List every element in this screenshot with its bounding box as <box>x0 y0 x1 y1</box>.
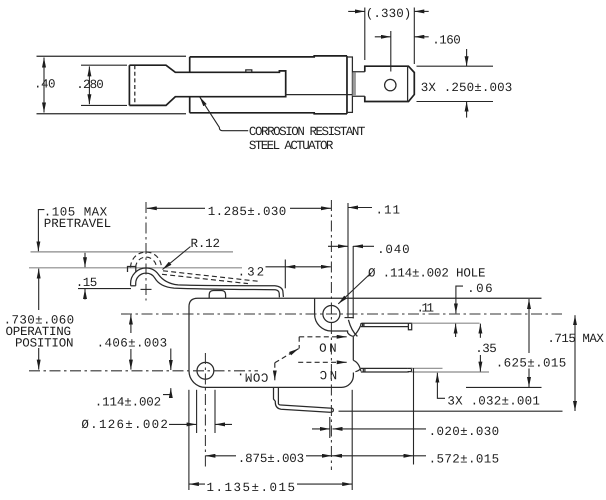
extension line (.330) left <box>364 8 366 61</box>
free-position curl tail box <box>128 267 136 273</box>
svg-text:3X .032±.001: 3X .032±.001 <box>447 394 539 408</box>
svg-text:.11: .11 <box>376 204 400 218</box>
mounting hole centerline vertical <box>204 353 206 468</box>
lower terminal bend ticks <box>363 368 365 372</box>
dimension .020 arrows <box>312 428 330 430</box>
dashed free-position lever top <box>163 271 258 281</box>
extension line .160 at hole center <box>390 31 392 72</box>
svg-text:POSITION: POSITION <box>15 336 73 350</box>
body bottom extension line <box>466 386 542 388</box>
body bottom right corner <box>342 373 354 388</box>
dimension .280 arrows <box>88 66 90 104</box>
switch body outline <box>189 298 542 387</box>
lower terminal extension lines <box>412 367 443 369</box>
body end cap <box>347 57 353 112</box>
extension lines 3X .250 <box>417 65 494 67</box>
lever strip top edge with taper <box>129 65 285 94</box>
upper terminal end tab <box>408 323 411 330</box>
lower terminal strip <box>361 368 408 372</box>
svg-text:.040: .040 <box>377 243 409 257</box>
dimension .625 arrows <box>528 299 530 353</box>
svg-text:.406±.003: .406±.003 <box>97 337 167 351</box>
dimension 1.285 arrows <box>147 207 205 209</box>
svg-text:NC: NC <box>320 367 337 381</box>
operating position centerline <box>121 313 562 315</box>
dashed circuit corner <box>298 337 300 349</box>
leader R.12 <box>163 247 191 270</box>
svg-text:PRETRAVEL: PRETRAVEL <box>44 217 111 231</box>
mounting hole .126 <box>197 362 214 379</box>
switch body right edge <box>346 56 348 114</box>
dashed free-position lever bottom <box>162 274 248 283</box>
body right edge between terminals <box>352 336 354 360</box>
svg-text:NO: NO <box>320 339 337 353</box>
extension line body right lower <box>351 390 353 490</box>
curl centerline vertical <box>145 202 147 301</box>
svg-text:R.12: R.12 <box>191 237 220 251</box>
svg-text:(.330): (.330) <box>366 7 411 21</box>
extension line .32 <box>284 260 286 289</box>
extension line x348 <box>347 203 349 318</box>
svg-text:.625±.015: .625±.015 <box>496 357 566 371</box>
lower terminal bend outer <box>353 360 361 371</box>
dimension 3X .032 bracket arrow <box>437 373 445 399</box>
svg-text:.15: .15 <box>76 276 97 290</box>
lower terminal bend inner <box>355 369 361 372</box>
switch body bottom edge (top view) <box>190 113 347 114</box>
dimension .406 arrows <box>130 315 132 333</box>
common terminal pin inner <box>278 388 330 408</box>
dashed free-position curl outer arc <box>131 252 162 267</box>
svg-text:STEEL ACTUATOR: STEEL ACTUATOR <box>249 139 334 153</box>
svg-text:.06: .06 <box>467 282 492 296</box>
dimension .730 operating position arrows <box>38 269 40 310</box>
dimension (.330) arrows <box>348 10 365 12</box>
svg-text:.572±.015: .572±.015 <box>429 452 499 466</box>
svg-text:.715 MAX: .715 MAX <box>547 332 604 346</box>
dashed circuit NC arrow <box>298 361 342 363</box>
dimension .715 arrows <box>574 315 576 411</box>
extension line from pin tip <box>339 410 563 412</box>
switch body left edge lower segment <box>189 97 191 113</box>
dashed circuit COM arrow <box>274 363 276 375</box>
svg-text:1.135±.015: 1.135±.015 <box>207 481 295 495</box>
lever curl tail cap <box>131 285 136 287</box>
dimension .35 arrows <box>479 324 481 338</box>
terminal tab hole <box>385 79 396 90</box>
dimension .15 top arrow <box>84 253 86 267</box>
dimension .114 upper arrow <box>170 349 172 371</box>
short line .020 <box>329 417 331 438</box>
dimension .572 arrows <box>332 455 414 457</box>
pivot ear <box>315 298 353 336</box>
upper terminal bend outer <box>348 320 357 337</box>
svg-text:Ø.126±.002: Ø.126±.002 <box>81 418 167 432</box>
dimension .06 bracket arrow <box>456 286 463 313</box>
svg-text:1.285±.030: 1.285±.030 <box>208 205 286 219</box>
upper terminal strip <box>361 323 409 326</box>
extension line (.330)/.160 right <box>413 8 415 65</box>
lever strip bottom edge with taper <box>129 95 285 106</box>
switch body left edge upper segment <box>189 57 191 72</box>
svg-text:.40: .40 <box>34 78 55 92</box>
pivot hole .114 <box>323 306 340 323</box>
terminal tab bend line <box>407 66 409 101</box>
dashed circuit diagonal <box>275 351 294 363</box>
upper terminal bend ticks <box>363 323 364 326</box>
extension line body left lower <box>188 390 190 490</box>
dashed free-position curl inner arc <box>136 257 157 267</box>
tick at ear top right <box>345 317 354 319</box>
switch body top edge (top view) <box>190 56 347 57</box>
dimension .32 arrows <box>266 266 286 268</box>
dimension .15 extension line <box>78 288 131 290</box>
mounting hole centerline horizontal <box>29 370 258 372</box>
extension line terminal ends <box>413 368 415 465</box>
extension line x353 <box>352 246 354 319</box>
actuator outer envelope bottom line <box>37 113 187 115</box>
extension lines hole .126 <box>196 390 198 433</box>
operating travel line <box>29 267 242 269</box>
dimension 1.135 arrows <box>189 483 205 485</box>
actuator outer envelope top line <box>37 55 187 57</box>
dimension .126 arrows <box>169 423 197 425</box>
lower terminal end tab <box>407 368 411 372</box>
spring line to terminal base <box>286 94 353 96</box>
curl center cross tick <box>141 288 152 290</box>
svg-text:.160: .160 <box>432 34 460 48</box>
upper terminal extension line <box>412 322 480 324</box>
dimension .875 arrows <box>205 455 236 457</box>
dimension .15 bottom arrow <box>84 289 86 300</box>
svg-text:.11: .11 <box>417 302 434 316</box>
free position line <box>31 251 234 253</box>
dimension .040 arrows <box>328 245 348 247</box>
leader corrosion resistant steel actuator <box>200 97 249 131</box>
common terminal pin outer <box>274 388 334 412</box>
terminal base outline <box>352 72 364 97</box>
lever bend line (dashed) <box>134 65 136 105</box>
hole centerline vertical <box>330 200 332 470</box>
svg-text:3X .250±.003: 3X .250±.003 <box>421 81 512 95</box>
svg-text:.114±.002: .114±.002 <box>95 395 161 409</box>
svg-text:.35: .35 <box>475 342 496 356</box>
svg-text:.020±.030: .020±.030 <box>429 425 499 439</box>
lever curl outer arc and top surface <box>131 268 284 297</box>
svg-text:CORROSION RESISTANT: CORROSION RESISTANT <box>249 125 366 139</box>
leader hole .114 <box>338 273 371 304</box>
dimension .114 lower arrow with bracket <box>163 388 171 395</box>
dashed circuit NO arrow <box>299 336 342 338</box>
svg-text:.32: .32 <box>238 265 264 279</box>
dimension 3X .250 arrows <box>466 49 468 66</box>
svg-text:COM.: COM. <box>237 369 268 383</box>
dimension .11 upper arrow <box>348 207 372 209</box>
dimension .40 arrows <box>43 58 45 113</box>
upper terminal bend inner <box>353 325 361 336</box>
svg-text:Ø .114±.002 HOLE: Ø .114±.002 HOLE <box>368 267 485 281</box>
plunger dome <box>209 291 225 299</box>
terminal base gray band <box>353 72 356 96</box>
dimension .160 arrows <box>375 36 391 38</box>
extension lines .280 <box>81 64 127 66</box>
dimension .06 lower arrow <box>455 324 457 337</box>
svg-text:.875±.003: .875±.003 <box>238 452 304 466</box>
lever top notch <box>246 70 252 72</box>
dimension .105 MAX bracket and arrow <box>38 210 44 252</box>
lever strip left end <box>128 65 130 105</box>
terminal tab outline <box>365 66 415 101</box>
lever curl inner arc and bottom surface <box>136 273 280 297</box>
svg-text:.280: .280 <box>76 78 103 92</box>
